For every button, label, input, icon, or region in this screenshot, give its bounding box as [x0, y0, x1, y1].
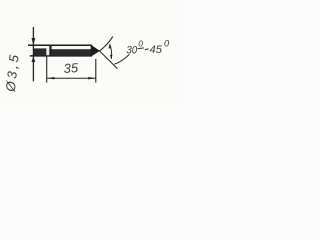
- svg-text:30: 30: [126, 45, 137, 57]
- svg-text:45: 45: [150, 44, 163, 56]
- svg-text:0: 0: [164, 39, 170, 49]
- svg-text:35: 35: [63, 60, 79, 76]
- svg-text:0: 0: [138, 39, 143, 49]
